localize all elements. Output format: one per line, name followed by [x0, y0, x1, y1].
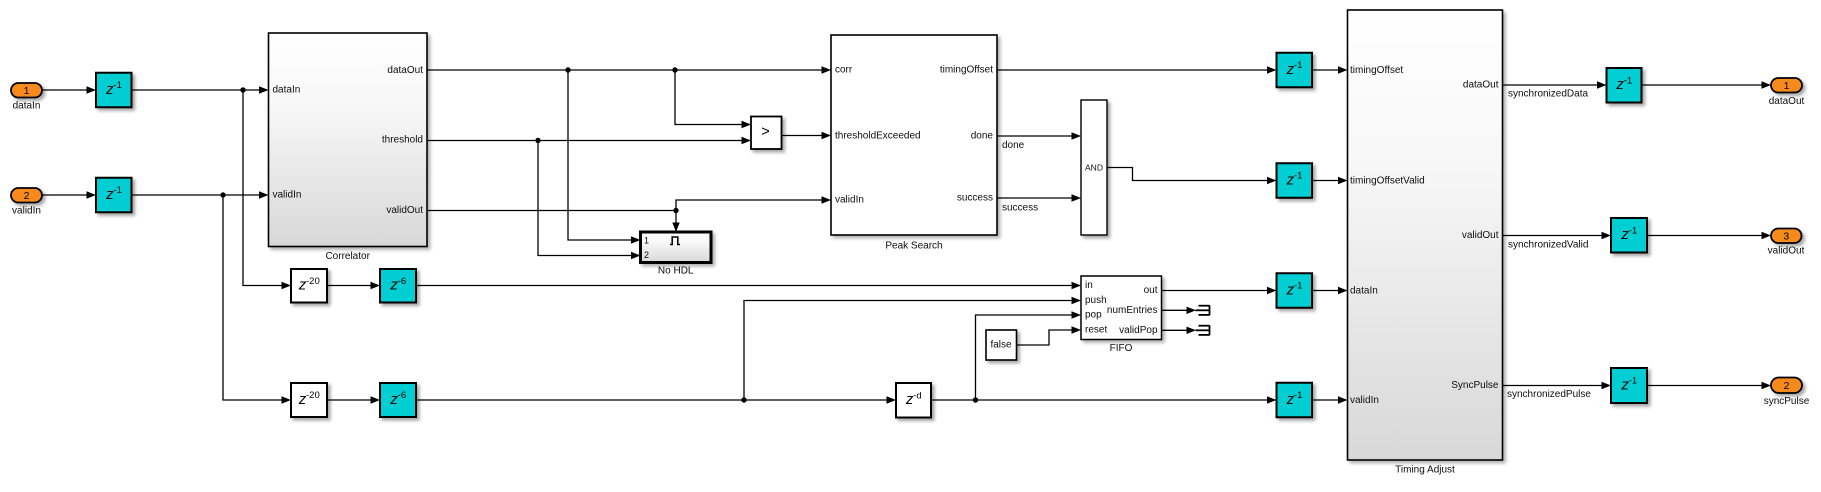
wire Z1i to outport syncPulse [1647, 385, 1763, 387]
svg-text:timingOffsetValid: timingOffsetValid [1350, 176, 1425, 187]
svg-text:dataOut: dataOut [1769, 96, 1805, 107]
node validOut branch [673, 208, 678, 213]
wire Z1g to outport dataOut [1642, 84, 1764, 86]
wire timingOffset to delay Z1c [997, 69, 1269, 71]
svg-text:validOut: validOut [1768, 246, 1805, 257]
node pop branch [973, 397, 978, 402]
svg-text:-1: -1 [1294, 171, 1302, 182]
delay Z1i (synchronizedPulse) [1611, 368, 1647, 403]
wire Z20a to Z6a [327, 285, 372, 287]
wire Timing Adjust SyncPulse to delay Z1i [1503, 385, 1604, 387]
delay Z1d (timingOffsetValid) [1277, 163, 1313, 198]
svg-text:push: push [1085, 295, 1107, 306]
node threshold branch [535, 138, 540, 143]
wire FIFO out to delay Z1e [1162, 290, 1269, 292]
wire push branch up to FIFO push [744, 301, 1073, 401]
delay Z1b (unit delay on validIn) [96, 178, 132, 213]
svg-text:reset: reset [1085, 325, 1107, 336]
wire Z1d to Timing Adjust timingOffsetValid [1312, 180, 1340, 182]
svg-text:Peak Search: Peak Search [885, 241, 942, 252]
svg-text:validPop: validPop [1119, 325, 1158, 336]
svg-text:dataIn: dataIn [1350, 286, 1378, 297]
svg-text:No HDL: No HDL [658, 266, 694, 277]
delay Z20b (z^-20 on valid path) [291, 383, 327, 417]
svg-text:SyncPulse: SyncPulse [1451, 380, 1499, 391]
wire Z20b to Z6b [327, 399, 372, 401]
svg-text:validOut: validOut [386, 205, 423, 216]
svg-text:-6: -6 [398, 390, 406, 401]
subsystem Correlator [269, 33, 428, 262]
wire AND out to delay Z1d [1107, 168, 1269, 181]
svg-text:-1: -1 [1294, 390, 1302, 401]
svg-text:FIFO: FIFO [1110, 343, 1133, 354]
svg-text:2: 2 [1784, 380, 1790, 392]
svg-text:-1: -1 [1629, 225, 1637, 236]
wire Z1e to Timing Adjust dataIn [1312, 290, 1340, 292]
svg-text:dataIn: dataIn [273, 85, 301, 96]
delay Z20a (z^-20 on data path) [291, 269, 327, 303]
inport 1 dataIn [11, 83, 42, 98]
svg-text:timingOffset: timingOffset [940, 65, 993, 76]
wire compare out to Peak Search thresholdExceeded [782, 135, 824, 137]
terminator 2 [1196, 325, 1210, 335]
outport 3 validOut [1771, 229, 1802, 244]
svg-text:timingOffset: timingOffset [1350, 65, 1403, 76]
svg-text:dataOut: dataOut [387, 65, 423, 76]
delay Z1c (timingOffset) [1277, 53, 1313, 88]
svg-text:synchronizedPulse: synchronizedPulse [1507, 389, 1591, 400]
svg-text:validOut: validOut [1462, 230, 1499, 241]
wire Z1f to Timing Adjust validIn [1312, 399, 1340, 401]
svg-text:validIn: validIn [835, 195, 864, 206]
svg-text:corr: corr [835, 65, 853, 76]
svg-text:thresholdExceeded: thresholdExceeded [835, 131, 921, 142]
wire validIn port to delay [42, 194, 88, 196]
svg-text:Correlator: Correlator [325, 251, 370, 262]
wire dataIn branch down to Z20a [243, 90, 283, 286]
delay Z1g (synchronizedData) [1607, 68, 1642, 103]
svg-text:-1: -1 [1624, 75, 1632, 86]
svg-text:synchronizedData: synchronizedData [1508, 89, 1588, 100]
svg-text:3: 3 [1783, 230, 1789, 242]
wire delay to Correlator validIn [132, 194, 261, 196]
delay Z1h (synchronizedValid) [1611, 218, 1647, 253]
svg-text:success: success [957, 193, 993, 204]
delay Z1e (dataIn) [1277, 273, 1313, 308]
svg-text:false: false [990, 340, 1012, 351]
svg-text:-1: -1 [113, 80, 121, 91]
wire success to AND [997, 197, 1073, 199]
svg-text:in: in [1085, 280, 1093, 291]
wire Correlator validOut to Peak Search validIn [427, 200, 823, 211]
svg-text:syncPulse: syncPulse [1764, 396, 1810, 407]
svg-text:threshold: threshold [382, 135, 423, 146]
svg-text:-20: -20 [306, 276, 320, 287]
wire branch down to No HDL in1 [568, 70, 633, 240]
wire done to AND [997, 135, 1073, 137]
wire Timing Adjust validOut to delay Z1h [1503, 235, 1604, 237]
wire pop branch up to FIFO pop [976, 315, 1074, 400]
outport 2 syncPulse [1771, 378, 1802, 394]
svg-text:AND: AND [1085, 163, 1103, 173]
svg-text:done: done [1002, 140, 1025, 151]
wire Z6b to Zd [416, 399, 888, 401]
subsystem Timing Adjust [1348, 10, 1503, 476]
delay Z1a (unit delay on dataIn) [96, 73, 132, 108]
outport 1 dataOut [1771, 78, 1802, 93]
node push branch [741, 397, 746, 402]
subsystem Peak Search [831, 35, 997, 252]
delay Z6a (z^-6 on data path) [380, 269, 416, 303]
svg-text:-1: -1 [1629, 376, 1637, 387]
delay Z1f (validIn) [1277, 383, 1313, 418]
svg-text:validIn: validIn [1350, 395, 1379, 406]
svg-text:done: done [971, 131, 994, 142]
node dataOut branch 1 [565, 67, 570, 72]
wire Z6a to FIFO in [416, 285, 1073, 287]
node dataOut branch 2 [672, 67, 677, 72]
node validIn branch [220, 192, 225, 197]
svg-text:-1: -1 [1294, 60, 1302, 71]
svg-text:validIn: validIn [273, 190, 302, 201]
svg-text:dataOut: dataOut [1463, 80, 1499, 91]
node dataIn branch [240, 87, 245, 92]
wire Z1c to Timing Adjust timingOffset [1312, 69, 1340, 71]
svg-text:-6: -6 [398, 276, 406, 287]
svg-text:pop: pop [1085, 310, 1102, 321]
logical operator AND [1081, 100, 1107, 235]
svg-text:1: 1 [1784, 80, 1790, 92]
svg-text:1: 1 [24, 85, 30, 97]
wire Zd to delay Z1f [931, 399, 1269, 401]
svg-text:>: > [761, 124, 769, 140]
wire Z1h to outport validOut [1647, 235, 1763, 237]
constant false [986, 330, 1017, 360]
svg-text:1: 1 [644, 236, 649, 246]
svg-text:-d: -d [913, 390, 921, 401]
wire branch down to compare in1 [675, 70, 743, 125]
subsystem FIFO [1081, 276, 1162, 354]
wire dataIn port to delay [42, 89, 88, 91]
wire validOut branch down to No HDL top [675, 211, 677, 224]
svg-text:2: 2 [644, 250, 649, 260]
wire Timing Adjust dataOut to delay Z1g [1503, 84, 1599, 86]
wire validIn branch down to Z20b [223, 195, 283, 400]
relational operator > [751, 117, 782, 150]
svg-text:success: success [1002, 203, 1038, 214]
wire false to FIFO reset [1017, 330, 1074, 345]
svg-text:-1: -1 [113, 185, 121, 196]
wire FIFO validPop to terminator 2 [1162, 329, 1189, 331]
inport 2 validIn [11, 188, 42, 203]
svg-text:-1: -1 [1294, 281, 1302, 292]
svg-text:synchronizedValid: synchronizedValid [1508, 240, 1588, 251]
delay Zd (z^-d) [896, 383, 931, 418]
wire Correlator dataOut to Peak Search corr [427, 69, 823, 71]
svg-text:-20: -20 [306, 390, 320, 401]
wire FIFO numEntries to terminator 1 [1162, 309, 1189, 311]
svg-text:Timing Adjust: Timing Adjust [1395, 465, 1455, 476]
wire delay to Correlator dataIn [132, 89, 261, 91]
wire threshold branch down to No HDL in2 [538, 141, 633, 256]
delay Z6b (z^-6 on valid path) [380, 383, 416, 417]
terminator 1 [1196, 305, 1210, 315]
subsystem No HDL [641, 232, 712, 277]
svg-text:numEntries: numEntries [1107, 305, 1158, 316]
wire Correlator threshold to compare in2 [427, 140, 743, 142]
svg-text:dataIn: dataIn [13, 101, 41, 112]
svg-text:2: 2 [24, 190, 30, 202]
svg-text:validIn: validIn [12, 206, 41, 217]
svg-text:out: out [1144, 285, 1158, 296]
